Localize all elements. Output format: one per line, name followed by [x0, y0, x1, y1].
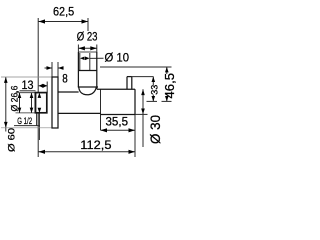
svg-text:46,5: 46,5: [162, 73, 177, 99]
svg-text:33: 33: [149, 85, 159, 95]
svg-text:Ø 60: Ø 60: [7, 128, 18, 152]
svg-text:8: 8: [62, 71, 68, 85]
svg-text:112,5: 112,5: [80, 138, 111, 152]
svg-text:Ø 26,6: Ø 26,6: [9, 86, 19, 112]
svg-text:G 1/2: G 1/2: [17, 116, 32, 126]
svg-text:Ø 10: Ø 10: [105, 50, 130, 64]
svg-text:Ø 30: Ø 30: [148, 115, 163, 144]
svg-text:13: 13: [22, 78, 34, 92]
svg-text:Ø 23: Ø 23: [77, 30, 98, 44]
svg-text:62,5: 62,5: [53, 5, 74, 19]
svg-text:35,5: 35,5: [106, 115, 129, 129]
